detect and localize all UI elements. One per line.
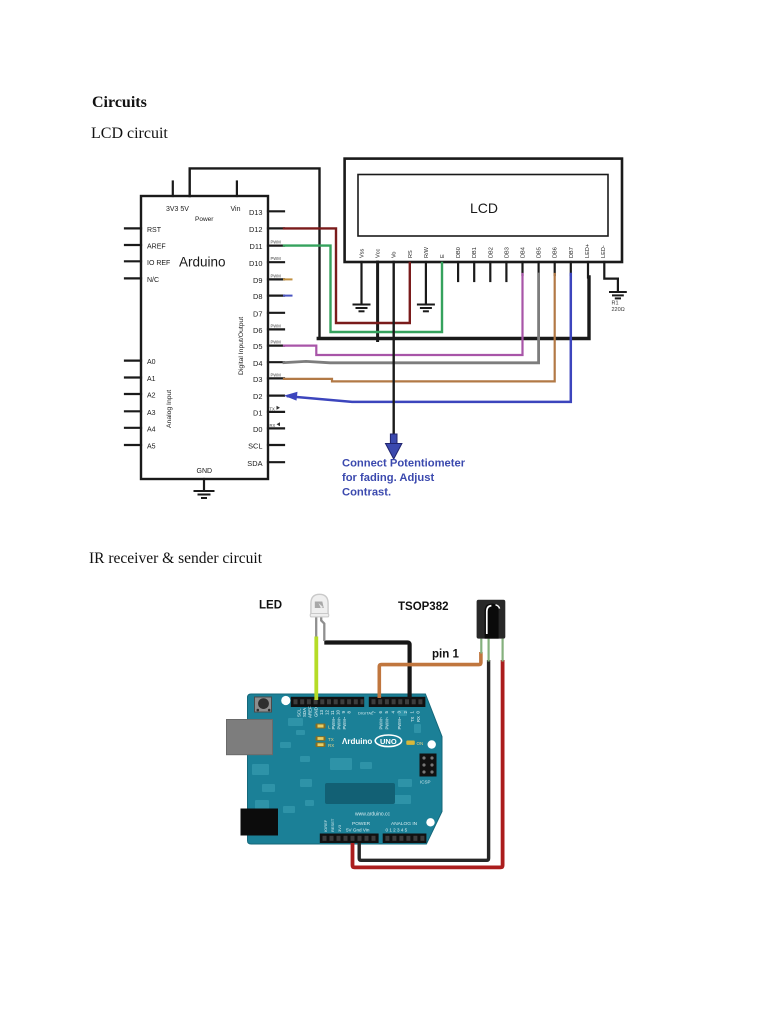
svg-text:220Ω: 220Ω	[612, 307, 625, 313]
svg-text:D13: D13	[249, 208, 263, 217]
svg-text:PWM~: PWM~	[342, 716, 347, 729]
bottom pin labels rotated	[323, 818, 342, 832]
svg-text:DB4: DB4	[521, 247, 527, 258]
left pin labels	[147, 227, 170, 451]
TX arrow	[277, 406, 281, 410]
svg-text:Vin: Vin	[231, 206, 241, 213]
wire TSOP GND to Gnd pin (black)	[359, 660, 488, 860]
ground symbol (R/W)	[418, 305, 434, 312]
svg-text:PWM: PWM	[271, 273, 282, 278]
wire D4 to DB5 (gray)	[284, 274, 539, 363]
top pin labels rotated	[297, 706, 421, 718]
SMD parts (light blobs)	[252, 710, 421, 813]
Arduino UNO board PCB	[248, 694, 443, 844]
svg-text:PWM: PWM	[271, 256, 282, 261]
svg-text:Power: Power	[195, 216, 214, 223]
svg-text:13: 13	[319, 710, 324, 715]
LED RX	[316, 742, 326, 747]
svg-text:TX: TX	[328, 737, 334, 742]
GND stub	[203, 479, 205, 490]
UNO oval	[375, 735, 401, 747]
svg-text:PWM~: PWM~	[331, 716, 336, 729]
svg-text:RX: RX	[270, 423, 276, 428]
svg-text:12: 12	[325, 710, 330, 715]
mounting hole bottom-right	[426, 818, 434, 826]
LED bulb	[311, 594, 328, 616]
ground symbol (Vss)	[354, 305, 370, 312]
TSOP leg 2	[488, 639, 490, 662]
wire LED- to R1	[604, 262, 618, 291]
analog header strip bottom right	[383, 834, 427, 844]
wire TSOP Vs to 5V pin (dark red)	[353, 660, 503, 867]
heading Circuits	[92, 94, 147, 112]
svg-text:DB0: DB0	[456, 247, 462, 258]
wire D12 to RS (dark red)	[284, 228, 410, 323]
arduino U1 body	[141, 196, 268, 479]
svg-text:DB5: DB5	[537, 247, 543, 258]
svg-text:SDA: SDA	[247, 459, 262, 468]
ground symbol (Arduino GND)	[195, 491, 214, 498]
svg-text:RST: RST	[147, 227, 162, 234]
svg-text:D1: D1	[253, 409, 262, 418]
PWM rotated marks	[331, 716, 421, 730]
svg-text:Λrduino: Λrduino	[342, 737, 372, 746]
RX arrow	[277, 422, 281, 426]
svg-text:D10: D10	[249, 259, 263, 268]
LCD pin labels (rotated)	[360, 244, 608, 258]
svg-text:POWER: POWER	[352, 821, 371, 827]
svg-text:RESET: RESET	[330, 818, 335, 832]
svg-text:D3: D3	[253, 375, 262, 384]
svg-text:D4: D4	[253, 359, 262, 368]
ground symbol (R1)	[610, 292, 626, 298]
svg-text:RX: RX	[328, 743, 334, 748]
TX RX labels	[270, 406, 276, 428]
header pin slots bottom	[323, 836, 425, 841]
wire D3 to DB6 (brown)	[284, 274, 555, 381]
right pin stubs D13-D0 SCL SDA	[268, 211, 284, 462]
ICSP header	[420, 754, 437, 785]
svg-text:11: 11	[330, 710, 335, 715]
mounting hole top-left	[281, 696, 290, 705]
wire rail to LED+	[318, 277, 589, 339]
svg-text:Digital Input/Output: Digital Input/Output	[238, 317, 245, 375]
main MCU chip	[325, 783, 395, 804]
TSOP382 body	[477, 600, 506, 639]
svg-text:A3: A3	[147, 410, 156, 417]
svg-text:D7: D7	[253, 309, 262, 318]
TSOP leg 3	[502, 639, 504, 662]
LCD pin stubs DB4-DB7 black tops	[523, 262, 571, 275]
power jack	[241, 809, 279, 836]
svg-text:www.arduino.cc: www.arduino.cc	[355, 812, 391, 818]
LCD module body	[345, 159, 622, 262]
svg-text:for fading. Adjust: for fading. Adjust	[342, 472, 434, 484]
svg-text:A0: A0	[147, 359, 156, 366]
svg-text:LED-: LED-	[601, 245, 607, 258]
svg-text:AREF: AREF	[308, 706, 313, 718]
svg-text:DB3: DB3	[504, 247, 510, 258]
svg-text:pin 1: pin 1	[432, 649, 459, 661]
svg-text:PWM: PWM	[271, 340, 282, 345]
svg-text:UNO: UNO	[380, 737, 397, 746]
LED lead right	[321, 615, 324, 641]
heading LCD circuit	[91, 125, 168, 143]
svg-text:PWM~: PWM~	[337, 716, 342, 729]
left pin stubs RST AREF IOREF N/C A0-A5	[125, 228, 141, 445]
mounting hole right	[428, 740, 436, 748]
svg-text:SCL: SCL	[248, 442, 262, 451]
svg-text:DB2: DB2	[488, 247, 494, 258]
heading IR receiver & sender circuit	[89, 550, 262, 568]
svg-text:Contrast.: Contrast.	[342, 487, 391, 499]
LED flange	[310, 614, 329, 617]
svg-text:Arduino: Arduino	[179, 255, 226, 270]
pin Vin stub	[236, 182, 238, 197]
svg-text:SDA: SDA	[302, 708, 307, 717]
svg-text:D8: D8	[253, 292, 262, 301]
wire D2 to DB7 (blue)	[288, 274, 571, 402]
svg-text:PWM~: PWM~	[397, 716, 402, 729]
wire Vo to potentiometer note	[393, 262, 395, 441]
TSOP leg 1	[480, 639, 482, 654]
svg-text:TX: TX	[410, 716, 415, 722]
note Connect Potentiometer	[342, 458, 466, 499]
wire TSOP pin1 to D7 (orange)	[379, 652, 481, 698]
wire D11 to E (green)	[284, 246, 442, 332]
svg-text:0 1 2 3 4 5: 0 1 2 3 4 5	[386, 828, 408, 833]
svg-text:ANALOG IN: ANALOG IN	[391, 821, 418, 827]
wire D5 to DB4 (violet)	[284, 274, 523, 355]
svg-text:D2: D2	[253, 392, 262, 401]
digital header strip left	[291, 697, 364, 707]
svg-text:GND: GND	[313, 707, 318, 717]
TSOP top-right glint	[496, 605, 500, 609]
svg-text:Vo: Vo	[392, 251, 398, 258]
svg-text:DB7: DB7	[569, 247, 575, 258]
svg-text:DB1: DB1	[472, 247, 478, 258]
svg-text:ICSP: ICSP	[420, 780, 431, 785]
wire Vss to ground	[360, 262, 362, 303]
svg-text:R/W: R/W	[424, 246, 430, 258]
svg-text:SCL: SCL	[297, 708, 302, 717]
svg-text:AREF: AREF	[147, 244, 166, 251]
svg-text:D0: D0	[253, 425, 262, 434]
digital header strip right	[369, 697, 426, 707]
svg-text:TX: TX	[270, 406, 276, 411]
svg-text:A4: A4	[147, 426, 156, 433]
svg-text:D6: D6	[253, 326, 262, 335]
LED TX	[316, 736, 326, 741]
header pin slots top	[294, 699, 423, 704]
svg-text:PWM: PWM	[271, 372, 282, 377]
svg-text:Analog Input: Analog Input	[166, 390, 173, 428]
TSOP dome highlight	[487, 606, 492, 634]
svg-text:Vcc: Vcc	[376, 248, 382, 258]
svg-text:TSOP382: TSOP382	[398, 601, 449, 613]
svg-text:RX: RX	[416, 716, 421, 722]
svg-text:R1: R1	[612, 301, 619, 307]
LED L	[316, 724, 326, 729]
wire R/W to ground	[425, 262, 427, 303]
svg-text:N/C: N/C	[147, 277, 159, 284]
svg-text:LED: LED	[259, 600, 282, 612]
svg-text:IOREF: IOREF	[323, 819, 328, 832]
svg-text:Vss: Vss	[360, 248, 366, 258]
power header strip bottom left	[320, 834, 379, 844]
svg-text:IO REF: IO REF	[147, 260, 170, 267]
D9 orange wire tip	[284, 278, 292, 280]
svg-text:10: 10	[336, 710, 341, 715]
svg-text:RS: RS	[408, 250, 414, 258]
svg-text:A1: A1	[147, 376, 156, 383]
texts of schematic 1	[147, 200, 625, 499]
wire LED cathode to D-pin (black)	[324, 643, 409, 699]
svg-text:LCD: LCD	[470, 200, 498, 216]
pin 3V3 stub	[172, 182, 174, 197]
svg-text:5V Gnd Vin: 5V Gnd Vin	[346, 828, 370, 833]
svg-text:PWM~: PWM~	[385, 716, 390, 729]
right pin labels	[247, 208, 262, 468]
svg-text:A2: A2	[147, 393, 156, 400]
LCD pin stubs DB0 DB1 DB2 DB3	[458, 262, 506, 281]
svg-text:ON: ON	[417, 741, 424, 746]
wire LED anode (yellow-green)	[314, 637, 318, 701]
svg-text:D12: D12	[249, 225, 263, 234]
svg-text:D5: D5	[253, 342, 262, 351]
svg-text:A5: A5	[147, 444, 156, 451]
wire 5V to rail	[190, 168, 320, 338]
blue arrow (potentiometer pointer)	[386, 434, 402, 459]
svg-text:E: E	[440, 254, 446, 258]
svg-text:PWM: PWM	[271, 323, 282, 328]
TSOP dome	[485, 604, 499, 639]
svg-text:GND: GND	[197, 468, 213, 475]
wire Vcc to rail	[376, 262, 379, 341]
svg-text:LED+: LED+	[585, 244, 591, 258]
svg-text:3V3 5V: 3V3 5V	[166, 206, 189, 213]
USB connector	[227, 720, 273, 755]
ON led	[406, 741, 415, 745]
LED lead left	[315, 615, 317, 638]
svg-text:Connect Potentiometer: Connect Potentiometer	[342, 458, 466, 470]
arrowhead at D2 (blue)	[284, 392, 298, 401]
svg-text:PWM: PWM	[271, 240, 282, 245]
svg-text:D11: D11	[249, 242, 262, 251]
PWM labels	[271, 240, 282, 378]
reset button	[255, 697, 272, 712]
svg-text:DB6: DB6	[553, 247, 559, 258]
D8 blue wire tip	[284, 295, 292, 297]
svg-text:3V3: 3V3	[337, 824, 342, 832]
LED die mark	[315, 602, 324, 609]
LCD inner screen	[358, 175, 608, 237]
svg-text:PWM~: PWM~	[378, 716, 383, 729]
svg-text:D9: D9	[253, 276, 262, 285]
